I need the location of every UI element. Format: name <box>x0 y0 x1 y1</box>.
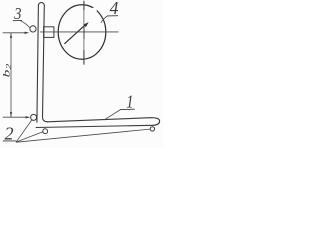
left foot ball <box>43 129 48 134</box>
lower reference ball on column <box>31 114 37 120</box>
dial indicator circle (pos 4) <box>58 5 106 59</box>
column right edge with fillet into base <box>43 6 48 122</box>
label 4 leader <box>101 16 107 23</box>
base bottom edge <box>36 125 153 127</box>
label 2 underline <box>3 140 16 142</box>
column left edge <box>37 6 39 123</box>
vertical centerline darker bottom tick <box>83 51 85 65</box>
label 4 underline <box>107 15 117 17</box>
right foot ball <box>150 127 154 131</box>
dimension b2: bottom extension line <box>3 116 26 118</box>
top extension arrowhead <box>25 32 30 34</box>
label 1 leader <box>104 110 120 120</box>
dimension bottom arrowhead <box>10 112 12 117</box>
vertical centerline darker top tick <box>83 1 85 10</box>
needle <box>65 24 87 44</box>
svg-text:4: 4 <box>110 0 119 18</box>
label 3 underline <box>13 19 21 21</box>
needle arrowhead <box>83 22 88 27</box>
label 1 underline <box>120 108 134 110</box>
dimension b2: top extension line <box>3 32 25 34</box>
base right rounded end <box>150 118 159 126</box>
dimension top arrowhead <box>10 33 12 38</box>
dimension b2: vertical dimension line <box>10 33 12 117</box>
svg-text:b2: b2 <box>1 64 13 78</box>
svg-text:1: 1 <box>126 91 133 112</box>
column top cap <box>38 3 44 6</box>
label 2 leader to clamp ball <box>16 120 32 142</box>
bottom extension arrowhead <box>26 116 31 118</box>
vertical centerline darker middle tick <box>83 27 85 39</box>
gap in circle outline (scan fade) <box>91 8 97 14</box>
label 2 leader to left foot <box>16 132 43 142</box>
label 3 leader <box>21 21 30 28</box>
indicator clamp block <box>44 27 54 38</box>
vertical centerline <box>83 1 85 64</box>
label 2 leader to right foot <box>16 129 150 142</box>
base top edge <box>48 118 151 122</box>
clamp knob ball (pos 3) <box>30 26 36 32</box>
horizontal centerline <box>41 31 119 33</box>
